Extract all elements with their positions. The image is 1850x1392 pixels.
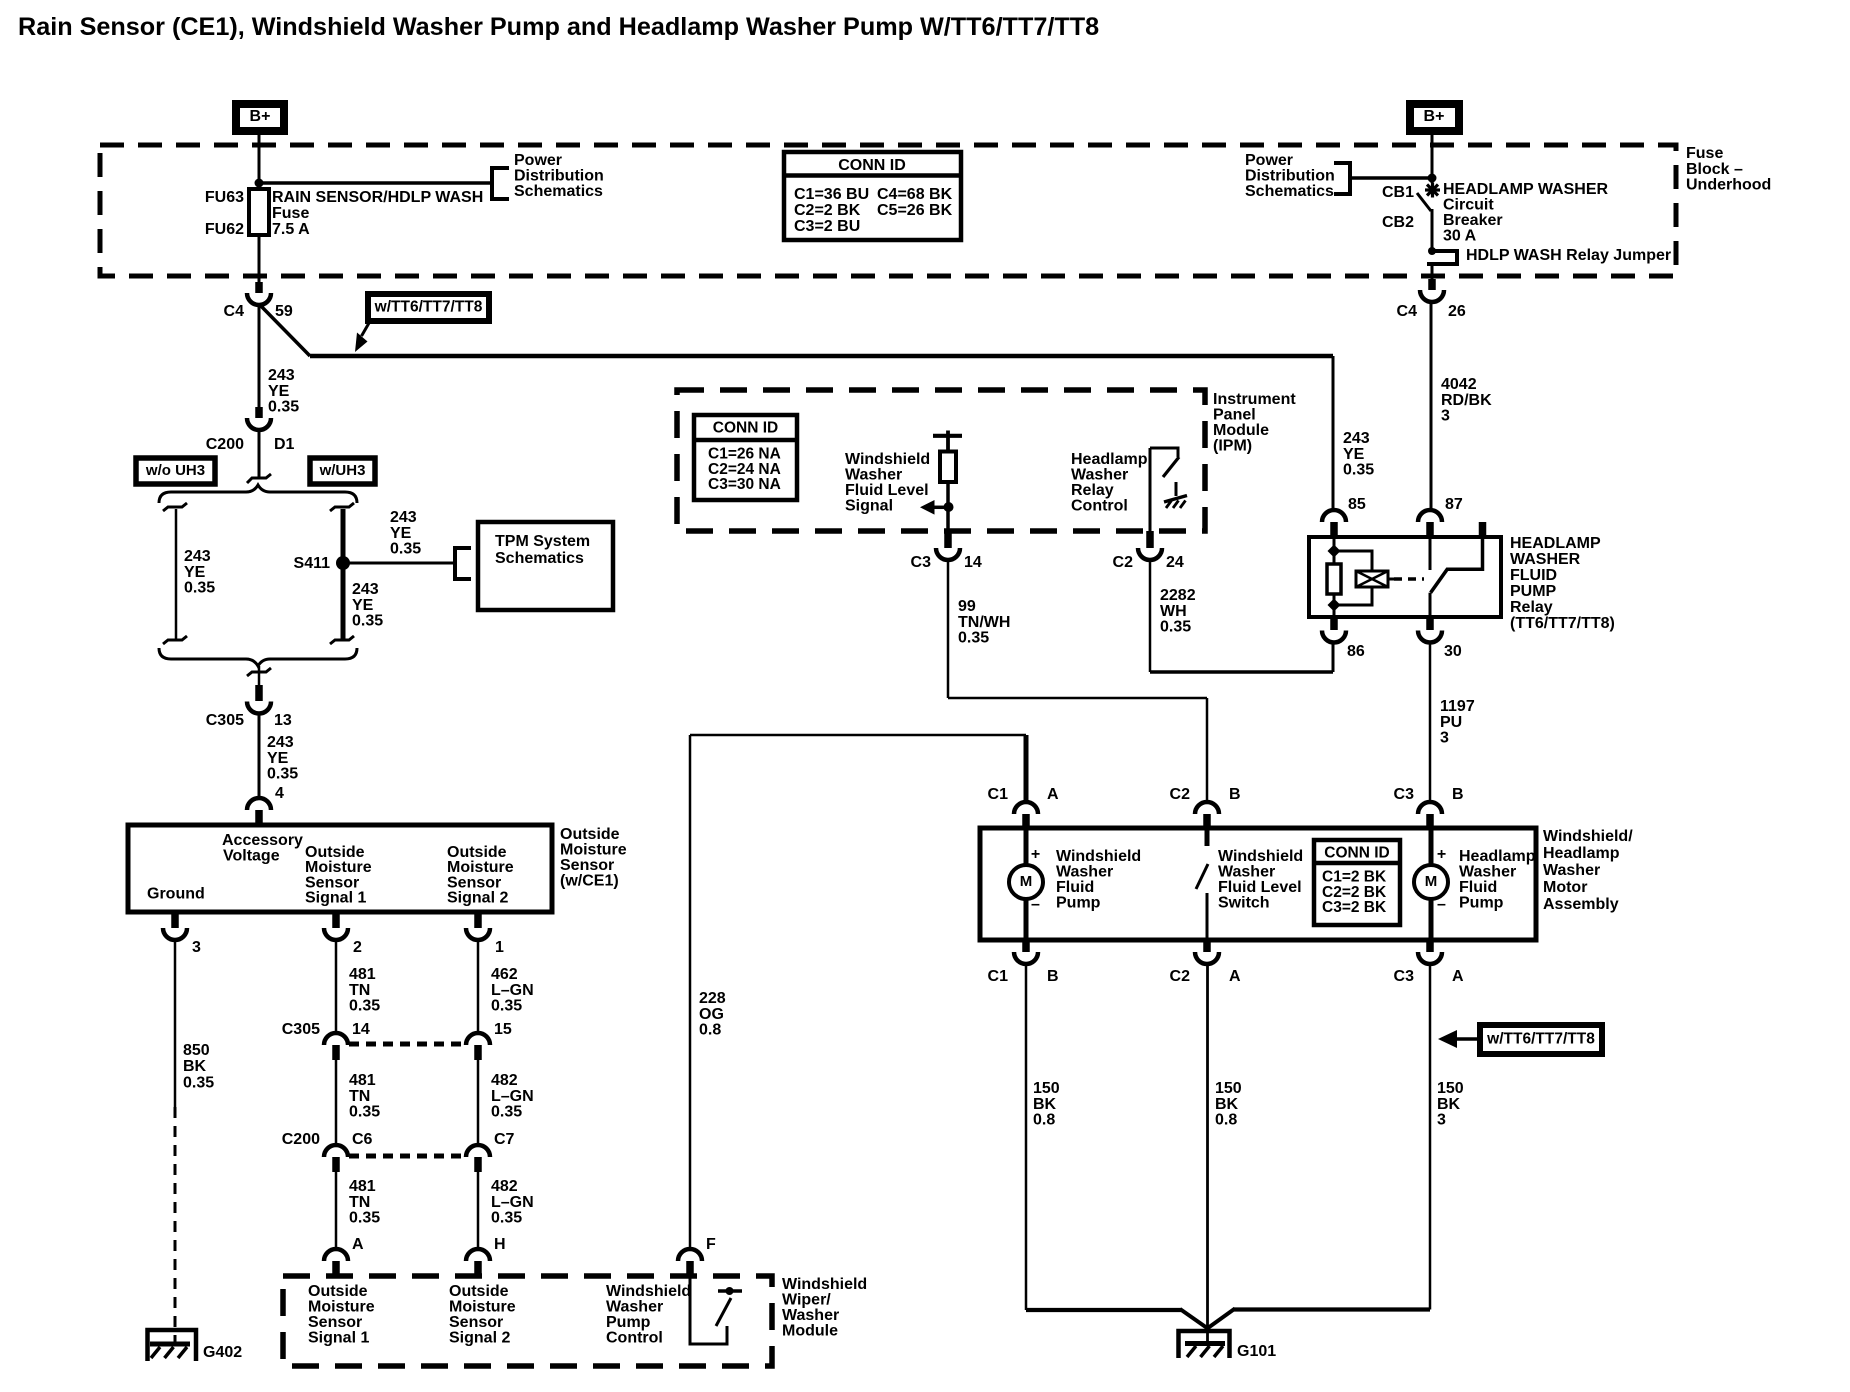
svg-text:3: 3 (1441, 408, 1450, 425)
label Ground (pin) (147, 886, 205, 903)
svg-text:PUMP: PUMP (1510, 583, 1557, 600)
label Outside Moisture Sensor (w/CE1) (560, 826, 627, 890)
svg-text:13: 13 (274, 712, 292, 729)
svg-text:C3=2 BK: C3=2 BK (1322, 899, 1387, 916)
label wire 481 TN 0.35 (seg2) (349, 1072, 380, 1121)
svg-text:+: + (1437, 846, 1446, 863)
connector C200 pin C7 (466, 1131, 515, 1172)
wire 482 L-GN seg2 (477, 1060, 480, 1146)
connector C200 pin D1 (206, 407, 295, 453)
svg-text:Signal 1: Signal 1 (308, 1330, 369, 1347)
headlamp washer fluid pump relay box (1309, 537, 1501, 617)
branch brace (bottom) (159, 648, 357, 666)
svg-text:3: 3 (1437, 1112, 1446, 1129)
svg-text:Schematics: Schematics (514, 183, 603, 200)
HDLP WASH relay jumper symbol (1427, 251, 1457, 264)
svg-text:0.35: 0.35 (183, 1074, 214, 1091)
svg-text:243: 243 (267, 734, 294, 751)
label Windshield Washer Fluid Pump (1056, 848, 1141, 912)
relay coil (1327, 537, 1341, 617)
svg-text:WH: WH (1160, 603, 1187, 620)
svg-text:14: 14 (352, 1021, 370, 1038)
wire 228 OG 0.8 (690, 735, 1026, 1250)
svg-text:Signal 1: Signal 1 (305, 890, 366, 907)
label wire 482 L-GN 0.35 (seg3) (491, 1178, 534, 1227)
svg-text:CONN ID: CONN ID (713, 420, 778, 437)
label Fuse Block - Underhood (1686, 145, 1771, 194)
svg-text:Fluid: Fluid (1459, 879, 1497, 896)
svg-text:Moisture: Moisture (560, 842, 627, 859)
svg-text:Windshield: Windshield (782, 1276, 867, 1293)
label - (M2) (1437, 896, 1446, 913)
svg-text:C4: C4 (1397, 303, 1418, 320)
connector relay pin 85 (1322, 496, 1366, 537)
label Windshield Wiper/Washer Module (782, 1276, 867, 1340)
label CB2 (1382, 214, 1414, 231)
label wire 243 YE 0.35 (below S411) (352, 581, 383, 630)
svg-text:482: 482 (491, 1178, 518, 1195)
tag box w/TT6/TT7/TT8 (top) (368, 294, 489, 321)
svg-text:0.35: 0.35 (958, 630, 989, 647)
svg-text:Pump: Pump (1056, 895, 1101, 912)
svg-text:C200: C200 (282, 1131, 320, 1148)
svg-text:0.35: 0.35 (1160, 619, 1191, 636)
svg-text:A: A (1229, 968, 1241, 985)
svg-text:Power: Power (1245, 152, 1293, 169)
svg-text:Wiper/: Wiper/ (782, 1292, 831, 1309)
label Power Distribution Schematics (right) (1245, 152, 1335, 200)
instrument panel module box (677, 390, 1205, 531)
svg-text:TN: TN (349, 982, 370, 999)
svg-text:Washer: Washer (1056, 864, 1113, 881)
label wire 481 TN 0.35 (seg1) (349, 966, 380, 1015)
svg-text:L–GN: L–GN (491, 982, 534, 999)
svg-text:0.35: 0.35 (491, 1210, 522, 1227)
svg-text:Rain Sensor (CE1), Windshield: Rain Sensor (CE1), Windshield Washer Pum… (18, 13, 1099, 41)
svg-text:Moisture: Moisture (449, 1299, 516, 1316)
svg-text:Schematics: Schematics (495, 550, 584, 567)
svg-text:4042: 4042 (1441, 376, 1477, 393)
svg-text:C1: C1 (988, 968, 1009, 985)
arrow from w/TT6 tag to C3-A wire (1438, 1030, 1480, 1048)
svg-text:w/UH3: w/UH3 (319, 462, 366, 479)
svg-text:Fuse: Fuse (1686, 145, 1723, 162)
CONN ID table (IPM) (694, 415, 797, 500)
svg-text:C2: C2 (1170, 786, 1191, 803)
svg-text:Pump: Pump (606, 1314, 651, 1331)
svg-text:14: 14 (964, 554, 982, 571)
svg-text:CONN ID: CONN ID (838, 157, 906, 174)
washer pump control switch (690, 1276, 742, 1344)
connector C2 pin A (1170, 940, 1241, 985)
junction node fluid level signal (944, 502, 954, 512)
svg-text:0.8: 0.8 (1215, 1112, 1237, 1129)
svg-text:Switch: Switch (1218, 895, 1270, 912)
svg-text:1197: 1197 (1440, 698, 1475, 715)
wire relay 30 to pump C3-B (1429, 642, 1432, 803)
svg-text:0.35: 0.35 (268, 399, 299, 416)
svg-text:CB2: CB2 (1382, 214, 1414, 231)
power distribution bracket (left) (492, 168, 509, 199)
svg-text:–: – (1031, 896, 1040, 913)
wire S411 to TPM reference (348, 562, 455, 565)
wire 481 TN seg2 (335, 1060, 338, 1146)
svg-text:CB1: CB1 (1382, 184, 1414, 201)
label wire 243 YE 0.35 (to sensor) (267, 734, 298, 783)
wire B+ to fuse FU63 (258, 131, 261, 190)
washer fluid level sense resistor (IPM) (933, 431, 962, 532)
svg-text:481: 481 (349, 966, 376, 983)
windshield washer fluid level switch (1196, 828, 1210, 940)
connector C305 pin 15 (466, 1021, 512, 1060)
svg-text:7.5 A: 7.5 A (272, 221, 310, 238)
svg-text:C2: C2 (1170, 968, 1191, 985)
svg-text:2282: 2282 (1160, 587, 1196, 604)
svg-text:C3: C3 (1394, 786, 1415, 803)
relay coil junction (bottom) (1328, 599, 1341, 612)
connector pin 3 (ground) (163, 912, 201, 956)
svg-text:482: 482 (491, 1072, 518, 1089)
svg-text:M: M (1425, 873, 1438, 890)
svg-text:Windshield: Windshield (606, 1283, 691, 1300)
svg-text:Washer: Washer (1543, 862, 1600, 879)
svg-text:3: 3 (1440, 730, 1449, 747)
svg-text:C1: C1 (988, 786, 1009, 803)
branch bar w/o UH3 (top) (163, 503, 187, 511)
label Accessory Voltage (222, 832, 303, 865)
wire down to relay pin 85 (1332, 356, 1335, 511)
connector C2 pin 24 (IPM) (1113, 531, 1184, 571)
svg-text:243: 243 (184, 548, 211, 565)
svg-text:H: H (494, 1236, 506, 1253)
power distribution bracket (right) (1334, 163, 1350, 194)
svg-text:15: 15 (494, 1021, 512, 1038)
label wire 150 BK 0.8 (middle) (1215, 1080, 1242, 1129)
svg-text:C7: C7 (494, 1131, 515, 1148)
svg-text:24: 24 (1166, 554, 1184, 571)
svg-text:Schematics: Schematics (1245, 183, 1334, 200)
svg-text:WASHER: WASHER (1510, 551, 1581, 568)
connector relay pin 86 (1322, 617, 1365, 660)
label wire 243 YE 0.35 (w/o UH3) (184, 548, 215, 597)
relay coil junction (top) (1328, 545, 1341, 558)
svg-text:Distribution: Distribution (514, 168, 604, 185)
connector relay pin 87 (1418, 496, 1463, 537)
label FU63 (205, 189, 244, 206)
connector C305 pin 14 (282, 1021, 370, 1060)
svg-text:BK: BK (1215, 1096, 1239, 1113)
svg-text:Block –: Block – (1686, 161, 1743, 178)
label RAIN SENSOR/HDLP WASH Fuse 7.5 A (272, 189, 483, 238)
wire breaker to jumper (1431, 209, 1434, 252)
wire long horizontal feed w/TT6 (310, 354, 1333, 359)
windshield/headlamp washer motor assembly box (980, 828, 1536, 940)
TPM system bracket (455, 548, 471, 579)
tag box w/TT6/TT7/TT8 (bottom) (1480, 1025, 1602, 1054)
svg-text:150: 150 (1033, 1080, 1060, 1097)
wire 850 BK dashed segment (174, 1107, 177, 1343)
label Outside Moisture Sensor Signal 2 (module) (449, 1283, 516, 1347)
arrow from w/TT6 tag to feed wire (355, 323, 369, 352)
label wire 243 YE 0.35 (to relay 85) (1343, 430, 1374, 479)
svg-text:Panel: Panel (1213, 407, 1256, 424)
wire 99 TN/WH 0.35 (948, 560, 1207, 804)
svg-text:A: A (1047, 786, 1059, 803)
svg-text:Washer: Washer (606, 1299, 663, 1316)
svg-text:Windshield/: Windshield/ (1543, 828, 1633, 845)
svg-text:OG: OG (699, 1006, 724, 1023)
wire 150 BK 0.8 (C2-A) (1206, 964, 1209, 1344)
relay switch armature (1431, 537, 1483, 593)
svg-text:243: 243 (390, 509, 417, 526)
branch bar w/UH3 (bottom) (330, 636, 354, 644)
power feed B+ (right) (1410, 104, 1459, 131)
wire C200 to branch brace (258, 430, 261, 478)
label Instrument Panel Module (IPM) (1213, 391, 1296, 455)
svg-text:Relay: Relay (1071, 482, 1114, 499)
wire 150 BK 3 (C3-A) (1207, 964, 1431, 1330)
svg-text:Washer: Washer (845, 467, 902, 484)
svg-text:C2: C2 (1113, 554, 1134, 571)
circuit breaker CB1/CB2 switch blade (1417, 193, 1431, 211)
label Windshield Washer Pump Control (606, 1283, 691, 1347)
svg-text:4: 4 (275, 785, 284, 802)
fuse block - underhood boundary box (100, 145, 1676, 276)
svg-text:Circuit: Circuit (1443, 197, 1494, 214)
connector relay pin 30 (1418, 617, 1462, 660)
wire branch diagonal from C4-59 (259, 304, 310, 356)
svg-text:481: 481 (349, 1178, 376, 1195)
title text (18, 13, 1099, 41)
svg-text:Ground: Ground (147, 886, 205, 903)
label wire 99 TN/WH 0.35 (958, 598, 1010, 647)
svg-text:0.8: 0.8 (1033, 1112, 1055, 1129)
svg-text:RD/BK: RD/BK (1441, 392, 1492, 409)
junction node on left feed (255, 179, 264, 188)
svg-text:0.35: 0.35 (1343, 462, 1374, 479)
svg-text:Washer: Washer (1071, 467, 1128, 484)
svg-text:w/TT6/TT7/TT8: w/TT6/TT7/TT8 (1486, 1031, 1595, 1048)
svg-text:D1: D1 (274, 436, 295, 453)
svg-text:0.35: 0.35 (184, 580, 215, 597)
svg-text:Washer: Washer (782, 1307, 839, 1324)
svg-text:A: A (1452, 968, 1464, 985)
outside moisture sensor (w/CE1) box (128, 825, 552, 912)
svg-text:Windshield: Windshield (845, 451, 930, 468)
svg-text:Headlamp: Headlamp (1459, 848, 1536, 865)
label Outside Moisture Sensor Signal 1 (pin) (305, 844, 372, 907)
svg-text:243: 243 (1343, 430, 1370, 447)
wire branch w/UH3 (243 YE) (341, 509, 346, 640)
label Outside Moisture Sensor Signal 2 (pin) (447, 844, 514, 907)
svg-text:C5=26 BK: C5=26 BK (877, 202, 953, 219)
headlamp washer relay driver (IPM) (1150, 447, 1187, 532)
svg-text:(IPM): (IPM) (1213, 438, 1252, 455)
junction node jumper (1428, 247, 1436, 255)
svg-text:Fuse: Fuse (272, 205, 309, 222)
connector C4 pin 59 (224, 282, 293, 320)
svg-text:YE: YE (1343, 446, 1365, 463)
connector link C200 C6-C7 (349, 1154, 464, 1159)
svg-text:30 A: 30 A (1443, 228, 1477, 245)
svg-text:w/o UH3: w/o UH3 (145, 462, 205, 479)
wire 150 BK 0.8 (C1-B) (1026, 964, 1209, 1330)
svg-text:YE: YE (390, 525, 412, 542)
svg-text:+: + (1031, 846, 1040, 863)
svg-text:Headlamp: Headlamp (1071, 451, 1148, 468)
label Outside Moisture Sensor Signal 1 (module) (308, 1283, 375, 1347)
wire brace to C305-13 (258, 666, 261, 686)
wire 481 TN seg1 (335, 940, 338, 1035)
svg-text:(TT6/TT7/TT8): (TT6/TT7/TT8) (1510, 615, 1615, 632)
svg-text:26: 26 (1448, 303, 1466, 320)
label wire 482 L-GN 0.35 (seg2) (491, 1072, 534, 1121)
svg-text:Accessory: Accessory (222, 832, 303, 849)
svg-text:w/TT6/TT7/TT8: w/TT6/TT7/TT8 (374, 299, 483, 316)
svg-text:YE: YE (184, 564, 206, 581)
label wire 4042 RD/BK 3 (1441, 376, 1492, 425)
svg-text:Voltage: Voltage (223, 848, 280, 865)
splice S411 (294, 555, 350, 572)
relay actuator loop (1334, 551, 1372, 605)
svg-text:0.35: 0.35 (491, 1104, 522, 1121)
svg-text:YE: YE (268, 383, 290, 400)
wire 850 BK solid segment (174, 940, 177, 1108)
connector C1 pin A (988, 786, 1059, 828)
svg-text:3: 3 (192, 939, 201, 956)
tag box w/o UH3 (136, 458, 215, 484)
svg-text:Outside: Outside (308, 1283, 368, 1300)
svg-text:FLUID: FLUID (1510, 567, 1557, 584)
connector pin F (module) (678, 1236, 716, 1276)
svg-text:L–GN: L–GN (491, 1088, 534, 1105)
label Headlamp Washer Fluid Pump (1459, 848, 1536, 912)
relay switch contact 30 (1429, 593, 1432, 617)
svg-text:C3=2 BU: C3=2 BU (794, 218, 860, 235)
svg-text:M: M (1020, 873, 1033, 890)
svg-text:HEADLAMP: HEADLAMP (1510, 535, 1601, 552)
svg-text:CONN ID: CONN ID (1324, 845, 1389, 862)
svg-text:0.35: 0.35 (349, 998, 380, 1015)
label + (M2) (1437, 846, 1446, 863)
svg-text:C3: C3 (911, 554, 932, 571)
label wire 1197 PU 3 (1440, 698, 1475, 747)
svg-text:Windshield: Windshield (1218, 848, 1303, 865)
svg-text:B+: B+ (1424, 108, 1445, 125)
connector pin 2 (signal 1) (324, 912, 362, 956)
label wire 150 BK 3 (1437, 1080, 1464, 1129)
svg-text:243: 243 (268, 367, 295, 384)
svg-text:TN: TN (349, 1194, 370, 1211)
svg-text:C1=36 BU: C1=36 BU (794, 186, 869, 203)
svg-text:A: A (352, 1236, 364, 1253)
wire 482 L-GN seg3 (477, 1172, 480, 1250)
svg-text:C3: C3 (1394, 968, 1415, 985)
svg-text:YE: YE (267, 750, 289, 767)
svg-text:228: 228 (699, 990, 726, 1007)
svg-text:Power: Power (514, 152, 562, 169)
circuit breaker contact star (1425, 183, 1440, 198)
connector pin 1 (signal 2) (466, 912, 504, 956)
CONN ID table (motor assembly) (1314, 840, 1400, 925)
svg-text:0.35: 0.35 (349, 1104, 380, 1121)
svg-text:99: 99 (958, 598, 976, 615)
label wire 228 OG 0.8 (699, 990, 726, 1039)
svg-text:Fluid Level: Fluid Level (845, 482, 929, 499)
svg-text:YE: YE (352, 597, 374, 614)
svg-text:C305: C305 (206, 712, 244, 729)
svg-text:BK: BK (1033, 1096, 1057, 1113)
svg-text:C3=30 NA: C3=30 NA (708, 476, 781, 493)
connector C4 pin 26 (1397, 279, 1466, 320)
label wire 850 BK 0.35 (183, 1042, 214, 1091)
wire 462 L-GN seg1 (477, 940, 480, 1035)
power feed B+ (left) (236, 104, 284, 131)
branch tap mark (top) (247, 474, 271, 483)
relay actuator dashed link (1394, 577, 1424, 581)
label HDLP WASH Relay Jumper (1466, 247, 1671, 264)
svg-text:HDLP WASH Relay Jumper: HDLP WASH Relay Jumper (1466, 247, 1671, 264)
svg-text:Sensor: Sensor (308, 1314, 362, 1331)
svg-text:F: F (706, 1236, 716, 1253)
svg-text:(w/CE1): (w/CE1) (560, 873, 619, 890)
svg-text:C305: C305 (282, 1021, 320, 1038)
svg-text:Washer: Washer (1459, 864, 1516, 881)
svg-text:2: 2 (353, 939, 362, 956)
svg-text:Sensor: Sensor (560, 857, 614, 874)
wire jumper to connector C4 pin 26 (1431, 264, 1434, 280)
label wire 150 BK 0.8 (left) (1033, 1080, 1060, 1129)
label wire 243 YE 0.35 (upper left) (268, 367, 299, 416)
svg-text:1: 1 (495, 939, 504, 956)
connector pin H (module) (466, 1236, 506, 1276)
svg-text:Module: Module (782, 1323, 838, 1340)
svg-text:BK: BK (183, 1058, 207, 1075)
svg-text:243: 243 (352, 581, 379, 598)
label wire 2282 WH 0.35 (1160, 587, 1196, 636)
svg-text:B: B (1047, 968, 1059, 985)
svg-text:462: 462 (491, 966, 518, 983)
branch bar w/o UH3 (bottom) (163, 636, 187, 644)
label wire 481 TN 0.35 (seg3) (349, 1178, 380, 1227)
svg-text:Motor: Motor (1543, 879, 1587, 896)
svg-text:150: 150 (1437, 1080, 1464, 1097)
wire branch w/o UH3 (243 YE) (175, 509, 178, 640)
fuse FU63/FU62 RAIN SENSOR/HDLP WASH 7.5A (249, 189, 269, 235)
label Windshield Washer Fluid Level Signal (845, 451, 930, 515)
wire fuse to connector C4 pin 59 (258, 235, 261, 283)
fluid level signal arrow (920, 500, 946, 515)
relay actuator element (1356, 571, 1394, 587)
svg-text:FU62: FU62 (205, 221, 244, 238)
svg-text:Instrument: Instrument (1213, 391, 1296, 408)
svg-text:850: 850 (183, 1042, 210, 1059)
label Headlamp Washer Relay Control (1071, 451, 1148, 515)
branch tap mark (bottom) (247, 668, 271, 676)
junction node right feed (1428, 174, 1437, 183)
svg-text:–: – (1437, 896, 1446, 913)
svg-text:BK: BK (1437, 1096, 1461, 1113)
svg-text:FU63: FU63 (205, 189, 244, 206)
svg-text:C2=2 BK: C2=2 BK (794, 202, 861, 219)
svg-text:0.35: 0.35 (491, 998, 522, 1015)
label wire 462 L-GN 0.35 (491, 966, 534, 1015)
svg-text:Moisture: Moisture (308, 1299, 375, 1316)
svg-text:Outside: Outside (560, 826, 620, 843)
svg-text:Pump: Pump (1459, 895, 1504, 912)
wire 2282 WH 0.35 (1150, 560, 1333, 673)
svg-text:87: 87 (1445, 496, 1463, 513)
